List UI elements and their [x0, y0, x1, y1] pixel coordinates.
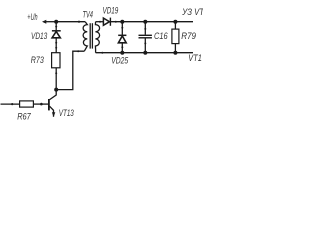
- wire: +Uh feed arrow: [42, 20, 56, 24]
- capacitor C16: [139, 22, 152, 53]
- svg-text:R67: R67: [17, 111, 31, 121]
- wire: primary winding return: [56, 50, 84, 89]
- junction node H (R79 bottom): [173, 51, 177, 55]
- diode VD19: [103, 18, 110, 26]
- junction node G (C16 bottom): [143, 51, 147, 55]
- junction node B (collector / R73 / primary return): [54, 88, 58, 92]
- resistor R79: [172, 22, 179, 53]
- junction node E (R79 top): [173, 20, 177, 24]
- transformer TV4: [83, 22, 100, 53]
- svg-text:VT13: VT13: [59, 108, 74, 118]
- wire: R73 to collector node: [55, 68, 57, 90]
- svg-text:VD19: VD19: [103, 5, 119, 15]
- junction node C (VD25 top): [120, 20, 124, 24]
- svg-text:R73: R73: [31, 55, 44, 65]
- wire: top rail VD19 to stub end: [110, 21, 193, 23]
- junction node F (VD25 bottom): [120, 51, 124, 55]
- secondary winding: [95, 22, 99, 53]
- core: [89, 23, 91, 48]
- svg-text:VD13: VD13: [31, 31, 47, 41]
- svg-text:VT1: VT1: [188, 53, 202, 63]
- transistor VT13: [49, 90, 56, 117]
- svg-text:+Uh: +Uh: [27, 12, 37, 22]
- diode VD25: [118, 22, 126, 53]
- svg-text:VD25: VD25: [111, 56, 129, 66]
- junction node D (C16 top): [143, 20, 147, 24]
- svg-text:C16: C16: [154, 31, 168, 41]
- primary winding: [83, 22, 87, 52]
- wire: middle rail (secondary return): [96, 52, 193, 54]
- diode VD13: [52, 22, 61, 53]
- resistor R67 with base wire: [1, 101, 49, 107]
- wire: top rail to transformer primary: [56, 21, 85, 23]
- wire: secondary top to VD19: [96, 21, 104, 23]
- junction node A (top rail / VD13): [54, 20, 58, 24]
- resistor R73: [52, 53, 60, 68]
- svg-text:TV4: TV4: [83, 9, 94, 19]
- svg-text:УЗ VT1: УЗ VT1: [181, 7, 203, 17]
- svg-text:R79: R79: [181, 31, 196, 41]
